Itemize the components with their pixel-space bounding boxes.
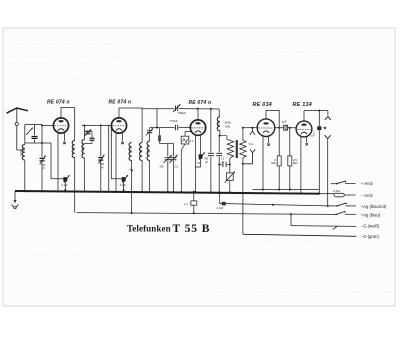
svg-text:−G (grün): −G (grün)	[361, 234, 380, 239]
capacitor C6	[111, 125, 128, 191]
potentiometer P1	[225, 171, 235, 193]
capacitor C16	[217, 192, 226, 210]
resistor R4	[271, 128, 281, 191]
coil L3b	[139, 143, 143, 161]
title Telefunken	[127, 223, 171, 233]
wire	[84, 124, 86, 139]
svg-text:− Heiz: − Heiz	[361, 193, 373, 198]
capacitor C15 2uF	[312, 111, 322, 195]
resistor R6 drop	[184, 191, 197, 215]
label TA	[248, 142, 254, 146]
row1 wire	[331, 183, 337, 185]
wire V1 grid cap lead	[63, 133, 66, 145]
coil L5	[217, 117, 232, 137]
switch S3	[336, 203, 356, 207]
wire	[219, 136, 227, 140]
trimmer C7	[146, 128, 153, 141]
svg-text:770pF: 770pF	[169, 119, 177, 123]
tube V1 RE074	[53, 118, 68, 133]
jack lower	[325, 135, 331, 206]
svg-text:pF: pF	[204, 161, 208, 164]
svg-text:1µF: 1µF	[281, 119, 286, 123]
label -G weiss	[361, 224, 380, 229]
label -Heiz	[361, 193, 373, 198]
capacitor C11	[169, 119, 177, 130]
wire	[41, 124, 43, 192]
wire V3 grid	[150, 127, 191, 129]
svg-text:−G (weiß): −G (weiß)	[361, 224, 380, 229]
coil L4	[146, 141, 150, 161]
resistor R5	[288, 127, 299, 191]
svg-text:0,1µF: 0,1µF	[62, 184, 69, 187]
svg-text:0,4Ω: 0,4Ω	[333, 189, 340, 193]
resistor R small	[158, 128, 161, 144]
tube V5 RE134	[296, 121, 312, 137]
ground bus	[15, 191, 319, 194]
svg-text:1,7µF: 1,7µF	[217, 206, 224, 210]
label +Heiz	[361, 181, 373, 186]
wire V3 anode	[197, 109, 199, 120]
svg-text:1,4: 1,4	[184, 202, 188, 206]
trimmer C8	[160, 144, 172, 193]
wire	[149, 161, 151, 193]
wire	[130, 161, 133, 215]
wire	[141, 161, 143, 193]
wire	[160, 143, 174, 145]
title T55B	[173, 223, 211, 235]
wire	[74, 158, 76, 213]
capacitor C12	[204, 109, 214, 193]
trimmer arrow input	[26, 128, 33, 135]
svg-text:0,1µF: 0,1µF	[120, 184, 127, 187]
antenna coil L1	[19, 145, 25, 161]
label +A blau	[361, 212, 381, 217]
wire V1 anode	[61, 108, 75, 141]
svg-text:700pF: 700pF	[178, 111, 186, 115]
capacitor C2	[42, 143, 69, 191]
svg-text:0885: 0885	[146, 147, 150, 154]
trimmer C3	[84, 129, 91, 136]
svg-text:RE 074 n: RE 074 n	[47, 100, 70, 106]
label RE074n V1	[47, 100, 70, 106]
wire V5 anode	[304, 110, 328, 122]
label RE034	[253, 102, 272, 108]
grid leak R2	[180, 132, 194, 193]
svg-text:+ Heiz: + Heiz	[361, 181, 373, 186]
jack upper	[325, 111, 331, 120]
coil L2a	[71, 141, 75, 158]
wire V4 grid cap lead	[267, 136, 270, 146]
svg-text:3995: 3995	[81, 145, 85, 152]
svg-text:08: 08	[139, 149, 143, 153]
wire V2 grid cap lead	[121, 133, 124, 145]
tube V3 RE074	[190, 120, 205, 135]
wire V5 grid cap lead	[305, 136, 308, 146]
row6 wire	[243, 234, 356, 236]
transformer TA winding 1	[227, 139, 234, 173]
label RE074n V2	[109, 100, 132, 106]
switch S1	[336, 181, 356, 185]
switch S4	[335, 211, 356, 215]
svg-text:RE 034: RE 034	[253, 102, 272, 108]
wire V4 anode	[266, 111, 280, 129]
svg-text:RE 074 n: RE 074 n	[109, 100, 132, 106]
transformer TA core	[236, 140, 238, 158]
svg-text:+Ag (blau/rot): +Ag (blau/rot)	[361, 204, 387, 209]
switch S5 open	[333, 226, 338, 230]
svg-text:RE 134: RE 134	[293, 102, 312, 108]
label RE134	[293, 102, 312, 108]
antenna	[7, 108, 29, 150]
label -G gruen	[361, 234, 380, 239]
capacitor C4	[85, 131, 95, 144]
svg-text:+Ag (blau): +Ag (blau)	[361, 212, 381, 217]
capacitor C18	[196, 135, 205, 167]
fork upper	[250, 127, 255, 135]
wire	[24, 160, 26, 192]
trimmer C17	[40, 155, 46, 170]
svg-text:RE 074 n: RE 074 n	[189, 100, 212, 106]
wire V2 anode	[119, 108, 142, 143]
wire V4 grid	[244, 127, 257, 129]
wire V3 cathode	[195, 135, 197, 193]
fork lower	[243, 149, 255, 164]
filament line	[253, 189, 319, 191]
wire	[275, 127, 296, 129]
resistor R7 0.4ohm	[319, 189, 356, 197]
tube V4 RE034	[257, 119, 275, 137]
svg-text:pF: pF	[100, 166, 104, 169]
label +A blau/rot	[361, 204, 387, 209]
trimmer C10	[173, 104, 186, 115]
capacitor C1	[32, 125, 44, 145]
row4 wire	[77, 213, 337, 215]
wire	[25, 125, 42, 145]
capacitor C13	[216, 136, 225, 193]
svg-text:500: 500	[160, 166, 165, 169]
wire V2 cathode	[115, 133, 117, 193]
wire top B	[142, 108, 219, 110]
transformer TA winding 2	[240, 127, 246, 235]
wire V1 grid	[42, 125, 53, 127]
capacitor C14 1uF	[281, 119, 287, 130]
wire	[108, 125, 110, 192]
svg-text:µF: µF	[312, 134, 316, 138]
label RE074n V3	[189, 100, 212, 106]
trimmer C5	[98, 125, 104, 192]
svg-text:pF: pF	[41, 167, 45, 170]
wire	[290, 213, 292, 226]
svg-text:Telefunken: Telefunken	[127, 223, 171, 233]
svg-text:600: 600	[217, 121, 221, 126]
svg-text:T.A.: T.A.	[248, 142, 254, 146]
capacitor C19	[218, 162, 231, 167]
plug tip	[323, 126, 326, 129]
row3 wire	[226, 204, 337, 207]
wire	[218, 109, 220, 117]
ground	[12, 191, 19, 208]
wire	[84, 158, 86, 193]
wire V4 cathode	[262, 136, 264, 191]
trimmer C9	[169, 144, 178, 193]
wire V5 cathode	[300, 137, 302, 195]
coil L2b	[81, 140, 85, 159]
wire V2 grid	[82, 124, 111, 126]
wire V1 cathode	[57, 133, 59, 192]
svg-text:0360: 0360	[19, 149, 23, 156]
row5 wire	[291, 225, 356, 228]
svg-text:T 55 B: T 55 B	[173, 223, 211, 235]
svg-text:080: 080	[128, 148, 132, 153]
svg-text:080: 080	[71, 146, 75, 151]
wire	[156, 109, 158, 129]
svg-text:1,4: 1,4	[190, 139, 194, 143]
coil L3a	[128, 143, 132, 161]
tube V2 RE074	[111, 118, 126, 133]
